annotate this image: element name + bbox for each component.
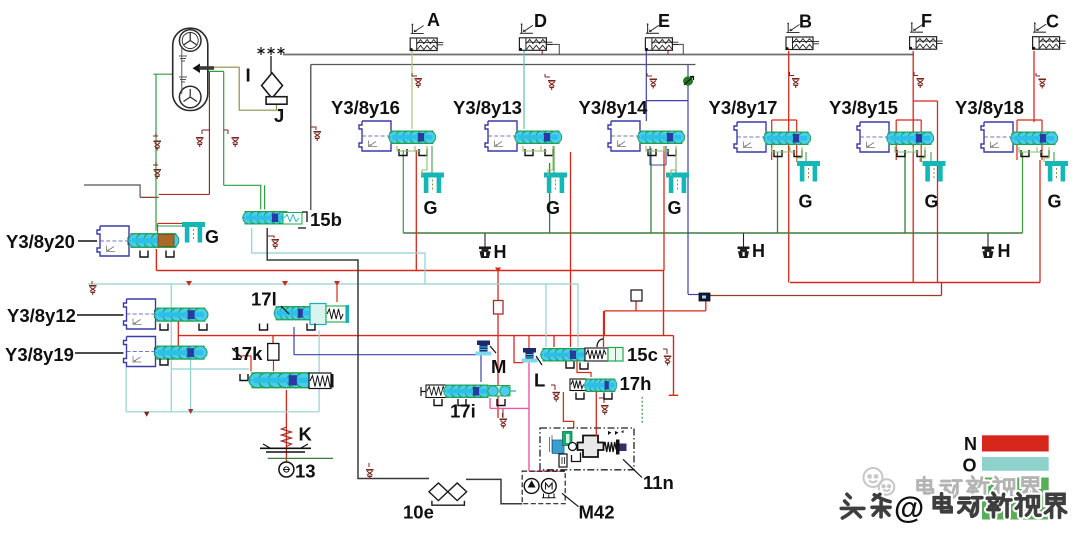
svg-text:H: H: [998, 241, 1011, 261]
svg-text:K: K: [299, 424, 313, 445]
svg-text:O: O: [963, 456, 977, 476]
svg-text:G: G: [799, 192, 813, 212]
svg-text:G: G: [925, 192, 939, 212]
svg-text:Y3/8y20: Y3/8y20: [6, 231, 75, 252]
svg-text:G: G: [424, 198, 438, 218]
svg-text:I: I: [246, 65, 251, 86]
svg-text:M42: M42: [579, 502, 615, 523]
svg-text:M: M: [491, 356, 506, 377]
svg-text:A: A: [427, 10, 440, 30]
svg-text:13: 13: [295, 461, 316, 482]
svg-text:@: @: [894, 490, 924, 525]
svg-text:E: E: [658, 11, 670, 31]
svg-text:G: G: [1048, 192, 1062, 212]
svg-text:C: C: [1046, 12, 1059, 32]
svg-text:Y3/8y14: Y3/8y14: [579, 97, 649, 118]
svg-text:17l: 17l: [251, 289, 277, 310]
svg-text:15c: 15c: [627, 344, 658, 365]
svg-text:L: L: [534, 370, 545, 391]
svg-text:G: G: [546, 198, 560, 218]
svg-text:G: G: [205, 227, 219, 247]
svg-text:H: H: [494, 242, 507, 262]
svg-text:D: D: [534, 11, 547, 31]
svg-text:15b: 15b: [310, 209, 342, 230]
svg-text:10e: 10e: [403, 502, 434, 523]
svg-text:F: F: [921, 11, 932, 31]
svg-text:G: G: [668, 198, 682, 218]
svg-text:17h: 17h: [620, 373, 652, 394]
svg-text:B: B: [799, 12, 812, 32]
svg-text:17i: 17i: [450, 401, 476, 422]
svg-text:Y3/8y15: Y3/8y15: [829, 97, 898, 118]
svg-text:Y3/8y18: Y3/8y18: [955, 97, 1024, 118]
svg-text:Y3/8y19: Y3/8y19: [5, 344, 74, 365]
svg-text:Y3/8y16: Y3/8y16: [331, 97, 400, 118]
svg-text:Y3/8y12: Y3/8y12: [7, 305, 76, 326]
svg-text:J: J: [274, 105, 284, 126]
svg-text:11n: 11n: [643, 472, 674, 493]
svg-text:17k: 17k: [232, 343, 264, 364]
svg-text:Y3/8y17: Y3/8y17: [709, 97, 778, 118]
svg-text:Y3/8y13: Y3/8y13: [453, 97, 522, 118]
svg-text:H: H: [752, 241, 765, 261]
svg-text:N: N: [964, 434, 977, 454]
